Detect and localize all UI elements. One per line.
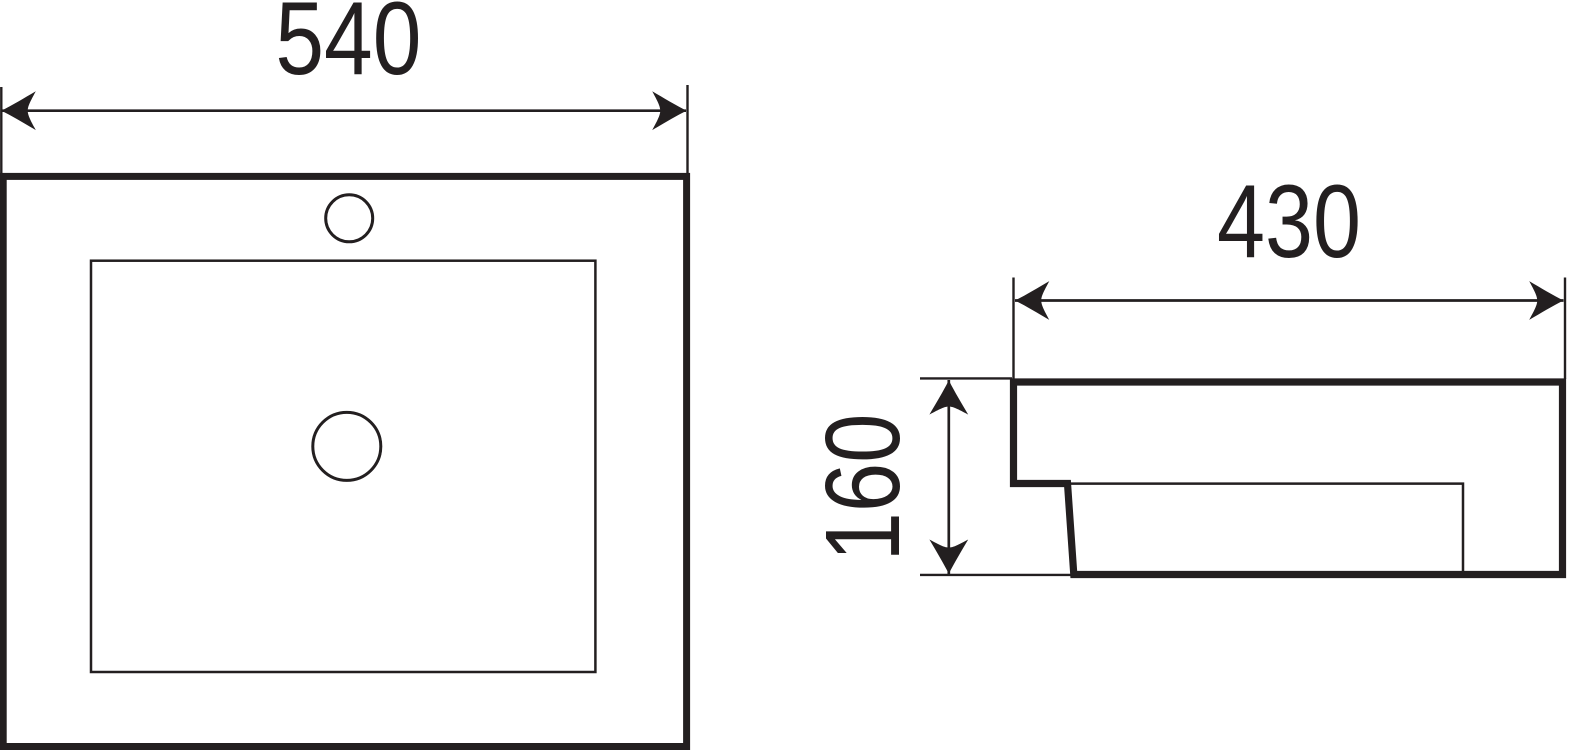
- extension line left of 540 dimension: [0, 87, 2, 173]
- extension line right of 430 dimension: [1564, 278, 1566, 380]
- svg-text:430: 430: [1217, 164, 1361, 280]
- faucet hole: [326, 195, 373, 242]
- drain hole: [313, 412, 381, 480]
- basin profile outline, side view: [1014, 382, 1563, 575]
- svg-text:160: 160: [804, 414, 922, 562]
- basin outer rim, top view: [3, 176, 686, 746]
- basin inner bowl line, side view: [1068, 484, 1464, 573]
- arrowhead right of 540 dimension: [652, 91, 686, 130]
- extension line right of 540 dimension: [686, 85, 688, 173]
- svg-text:540: 540: [275, 0, 421, 97]
- dimension label 430: [1217, 164, 1361, 280]
- arrowhead bottom of 160 dimension: [929, 540, 968, 574]
- dimension label 540: [275, 0, 421, 97]
- arrowhead left of 540 dimension: [2, 91, 36, 130]
- dimension line 160: [947, 380, 950, 574]
- dimension line 540: [2, 109, 686, 112]
- dimension line 430: [1015, 299, 1564, 302]
- dimension label 160 (rotated): [804, 414, 922, 562]
- extension line top of 160 dimension: [920, 377, 1012, 379]
- arrowhead left of 430 dimension: [1015, 281, 1049, 320]
- arrowhead right of 430 dimension: [1529, 281, 1563, 320]
- arrowhead top of 160 dimension: [929, 380, 968, 414]
- extension line left of 430 dimension: [1012, 278, 1014, 380]
- basin inner bowl, top view: [91, 261, 595, 672]
- extension line bottom of 160 dimension: [920, 574, 1073, 576]
